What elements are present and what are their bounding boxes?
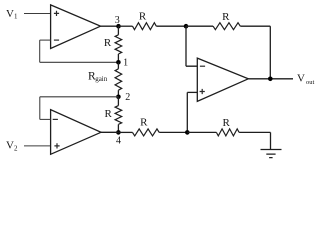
wire resistor to node 4 <box>117 124 119 132</box>
resistor R between node 3 and node 1 <box>115 35 122 54</box>
wire V2 to op-amp U2 + input <box>24 145 51 147</box>
svg-text:R: R <box>105 108 113 120</box>
U3 + input sign <box>200 89 205 94</box>
wire U1 feedback to node 1 <box>40 61 119 63</box>
wire U3 output <box>248 78 293 80</box>
resistor Rgain <box>115 69 122 90</box>
svg-text:out: out <box>306 79 315 86</box>
wire U1 feedback vertical <box>39 40 41 62</box>
resistor R between node 3 and node A <box>133 23 157 30</box>
node 3 junction dot <box>116 24 121 29</box>
svg-text:2: 2 <box>14 144 18 152</box>
svg-text:R: R <box>223 117 231 129</box>
U1 - input sign <box>54 39 59 41</box>
svg-text:2: 2 <box>125 92 130 103</box>
wire ground resistor to corner <box>239 131 270 133</box>
svg-text:4: 4 <box>116 136 121 147</box>
U2 + input sign <box>54 143 59 148</box>
resistor R between node 4 and node B <box>133 129 160 136</box>
label Rgain <box>88 71 108 84</box>
wire node 1 down to Rgain <box>117 62 119 69</box>
wire U1 output to node 3 <box>101 25 119 27</box>
wire node 4 to resistor R(4-B) <box>118 131 132 133</box>
label R (3-1) <box>104 37 112 49</box>
wire U1 - input stub <box>40 39 51 41</box>
wire node 3 down to resistor R(3-1) <box>117 26 119 35</box>
label node 2 <box>125 92 130 103</box>
resistor R between node 2 and node 4 <box>115 106 122 125</box>
label Vout <box>297 73 315 87</box>
wire feedback resistor to corner <box>240 25 270 27</box>
svg-text:R: R <box>104 37 112 49</box>
ground <box>261 150 282 158</box>
node 4 junction dot <box>116 130 121 135</box>
wire + input down to node B <box>186 92 188 132</box>
wire U2 feedback vertical <box>39 97 41 120</box>
wire corner down to ground <box>270 132 272 149</box>
svg-text:1: 1 <box>14 12 18 20</box>
svg-text:1: 1 <box>123 57 128 68</box>
U3 - input sign <box>200 65 205 67</box>
wire resistor to node B <box>159 131 187 133</box>
wire U2 feedback to node 2 <box>40 96 119 98</box>
op-amp U2 <box>51 110 101 155</box>
label R (ground) <box>223 117 231 129</box>
wire node A to feedback resistor <box>186 25 213 27</box>
label R (2-4) <box>105 108 113 120</box>
wire U2 output to node 4 <box>101 131 118 133</box>
svg-text:R: R <box>139 10 147 22</box>
svg-text:gain: gain <box>95 75 108 83</box>
svg-text:V: V <box>297 73 305 85</box>
wire feedback corner down to output node <box>269 26 271 79</box>
label R (4-B) <box>140 117 148 129</box>
op-amp U3 <box>197 58 248 101</box>
feedback resistor R (A to output) <box>213 23 240 30</box>
wire node B to ground resistor <box>187 131 216 133</box>
op-amp U1 <box>51 5 101 49</box>
svg-text:V: V <box>6 8 14 20</box>
node 2 junction dot <box>116 95 121 100</box>
wire Rgain to node 2 <box>117 90 119 97</box>
label V1 <box>6 8 18 21</box>
wire U3 + input stub <box>187 91 197 93</box>
wire U2 - input stub <box>40 118 51 120</box>
wire resistor to node A <box>156 25 186 27</box>
svg-text:V: V <box>6 140 14 152</box>
svg-text:R: R <box>140 117 148 129</box>
label V2 <box>6 140 18 153</box>
node 1 junction dot <box>116 60 121 65</box>
label node 3 <box>115 15 120 26</box>
label node 1 <box>123 57 128 68</box>
U1 + input sign <box>54 11 59 16</box>
svg-text:R: R <box>222 11 230 23</box>
label R (feedback) <box>222 11 230 23</box>
node A junction dot <box>184 24 189 29</box>
wire node A down to U3 - input <box>186 26 197 66</box>
wire resistor to node 1 <box>117 54 119 62</box>
node B junction dot <box>185 130 190 135</box>
output junction dot <box>268 77 273 82</box>
U2 - input sign <box>53 118 58 120</box>
wire node 2 down to resistor R(2-4) <box>117 97 119 106</box>
label R (3-A) <box>139 10 147 22</box>
resistor R (B to ground) <box>216 129 239 136</box>
wire V1 to op-amp U1 + input <box>24 13 51 15</box>
wire node 3 to resistor R(3-A) <box>119 25 133 27</box>
label node 4 <box>116 136 121 147</box>
